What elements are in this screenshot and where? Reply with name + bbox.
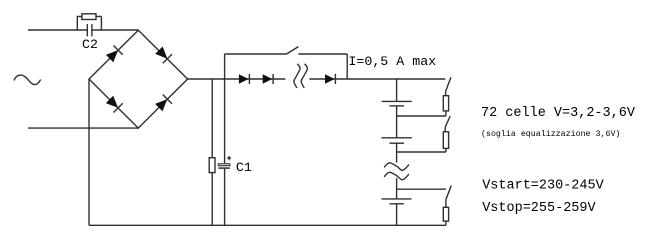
diode bridge D-BL (anode left corner, cathode bottom corner)	[106, 96, 123, 113]
wire AC line bottom (source to bridge bottom corner)	[28, 127, 138, 129]
switch equalization SW1 blade	[446, 77, 451, 91]
diode bridge D-BR (anode bottom corner, cathode right corner)	[155, 95, 172, 112]
wire cell2 down to stack break	[396, 143, 398, 162]
battery cell 2	[382, 138, 412, 143]
wire bleeder branch upper lead	[211, 79, 213, 158]
wire SW3 to R3	[445, 200, 447, 208]
wire balance tap node 2	[397, 151, 446, 153]
wire R1 to node 1	[445, 111, 447, 116]
svg-text:(soglia equalizzazione 3,6V): (soglia equalizzazione 3,6V)	[481, 129, 620, 139]
diode D-series-1	[239, 74, 250, 84]
switch equalization SW2 blade	[445, 116, 450, 127]
svg-text:C1: C1	[236, 160, 252, 175]
resistor (C2 bleeder)	[82, 14, 96, 20]
diode D-series-2	[263, 74, 273, 84]
wire stack break down to cell 3	[396, 178, 398, 199]
wire bleeder branch lower lead	[211, 173, 213, 226]
wire R3 to bottom rail	[445, 221, 447, 225]
wire DC minus vertical (bridge left corner down)	[88, 79, 90, 225]
svg-text:Vstop=255-259V: Vstop=255-259V	[482, 201, 596, 216]
wire bottom rail	[89, 224, 446, 226]
diode D-series-3	[325, 74, 335, 84]
svg-text:C2: C2	[82, 37, 98, 52]
polarity plus mark of C1	[227, 156, 231, 160]
resistor equalization R3	[443, 207, 448, 221]
wire cell1 to cell2	[396, 106, 398, 138]
wire DC plus main line (after break to switch blade end)	[309, 78, 445, 80]
switch equalization SW3 blade	[446, 186, 451, 200]
resistor equalization R2	[443, 132, 448, 149]
svg-text:Vstart=230-245V: Vstart=230-245V	[482, 179, 604, 194]
battery cell 1	[382, 101, 412, 106]
diode bridge D-TR (anode top corner, cathode right corner)	[155, 47, 172, 64]
wire C1 lower lead	[224, 169, 226, 226]
wire switch branch top (right segment)	[298, 53, 347, 55]
switch S1 blade	[287, 47, 299, 54]
wire C1 branch vertical (top wire corner through main line to C1)	[224, 54, 226, 163]
wire balance tap node 3	[397, 188, 446, 190]
wire switch branch top (left segment)	[225, 53, 287, 55]
capacitor C2 (X-cap plates)	[87, 24, 92, 36]
battery stack break symbol	[384, 163, 409, 180]
wire break symbol (omitted diodes)	[294, 64, 308, 88]
wire SW1 to R1	[445, 92, 447, 96]
wire AC line top (left segment to C2)	[28, 29, 87, 31]
node bridge: diamond edges	[89, 30, 188, 128]
battery cell 3	[382, 199, 412, 204]
diode bridge D-TL (anode left corner, cathode top corner)	[106, 46, 123, 63]
wire switch branch down-leg	[346, 54, 348, 79]
wire balance tap node 1	[397, 115, 446, 117]
capacitor C1 (electrolytic)	[218, 164, 230, 168]
resistor (C1 bleeder)	[209, 158, 215, 173]
svg-text:I=0,5 A max: I=0,5 A max	[348, 54, 436, 69]
wire cell3 bottom lead to rail	[396, 204, 398, 226]
wire AC line top (C2 to bridge top corner)	[92, 29, 138, 31]
resistor equalization R1	[443, 96, 448, 111]
wire R2 to node 2	[445, 148, 447, 152]
wire battery stack top lead	[396, 79, 398, 101]
wire bleeder loop left riser	[77, 16, 82, 30]
AC source symbol ~	[14, 75, 41, 84]
wire bleeder loop right riser	[96, 16, 101, 30]
wire DC plus main line (bridge right corner to break)	[188, 78, 286, 80]
svg-text:72 celle V=3,2-3,6V: 72 celle V=3,2-3,6V	[481, 106, 636, 121]
wire SW2 to R2	[444, 127, 446, 132]
